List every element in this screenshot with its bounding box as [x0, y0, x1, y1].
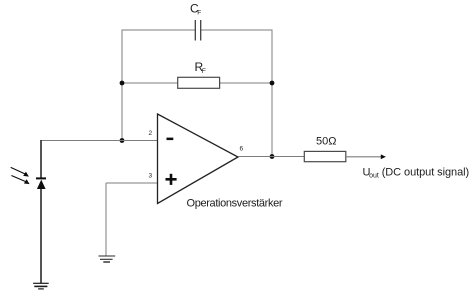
wire RF left lead — [122, 82, 178, 84]
resistor 50 ohm — [304, 151, 346, 161]
wire photodiode to ground — [40, 189, 42, 283]
node junction dot left RF — [120, 81, 125, 86]
capacitor CF — [195, 20, 200, 41]
op-amp non-inverting marker (plus) — [166, 174, 177, 185]
node junction dot right RF — [270, 81, 275, 86]
svg-text:50Ω: 50Ω — [316, 135, 336, 147]
light arrow 2 — [11, 176, 29, 185]
light arrow 1 — [11, 167, 29, 176]
wire top feedback right segment — [201, 29, 273, 31]
photodiode D1 cathode bar — [36, 177, 46, 179]
svg-text:Uout (DC output signal): Uout (DC output signal) — [363, 167, 470, 180]
svg-text:6: 6 — [240, 146, 244, 153]
op-amp U1 — [158, 114, 239, 204]
wire left feedback rail — [121, 30, 123, 141]
wire non-inverting input (pin 3) — [106, 182, 158, 184]
wire photodiode to inverting node (vertical) — [40, 140, 42, 178]
wire right feedback rail — [271, 30, 273, 157]
wire output lead — [346, 156, 382, 158]
svg-text:2: 2 — [149, 130, 153, 137]
wire RF right lead — [220, 82, 272, 84]
wire inverting input (pin 2) — [41, 140, 158, 142]
ground (op-amp non-inverting input) — [99, 256, 116, 262]
output arrowhead — [381, 154, 386, 159]
op-amp inverting marker (minus) — [167, 138, 174, 141]
resistor RF — [178, 77, 220, 88]
wire top feedback left segment — [122, 29, 195, 31]
node junction dot inverting input — [120, 138, 125, 143]
svg-text:3: 3 — [149, 173, 153, 180]
node junction dot output — [270, 154, 275, 159]
ground (photodiode) — [33, 283, 49, 289]
wire op-amp output to node — [238, 156, 304, 158]
wire pin 3 to ground — [105, 183, 107, 256]
svg-text:Operationsverstärker: Operationsverstärker — [187, 198, 283, 210]
photodiode D1 anode triangle — [37, 180, 46, 189]
